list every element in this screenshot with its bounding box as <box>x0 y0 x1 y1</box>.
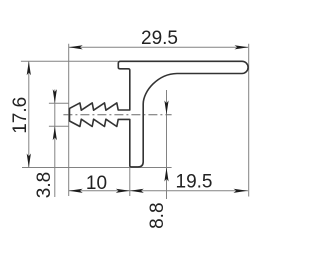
svg-text:29.5: 29.5 <box>141 28 178 49</box>
svg-text:10: 10 <box>86 173 107 194</box>
svg-text:17.6: 17.6 <box>10 97 31 134</box>
svg-text:19.5: 19.5 <box>176 172 213 193</box>
svg-text:3.8: 3.8 <box>34 172 55 198</box>
svg-text:8.8: 8.8 <box>147 202 168 228</box>
